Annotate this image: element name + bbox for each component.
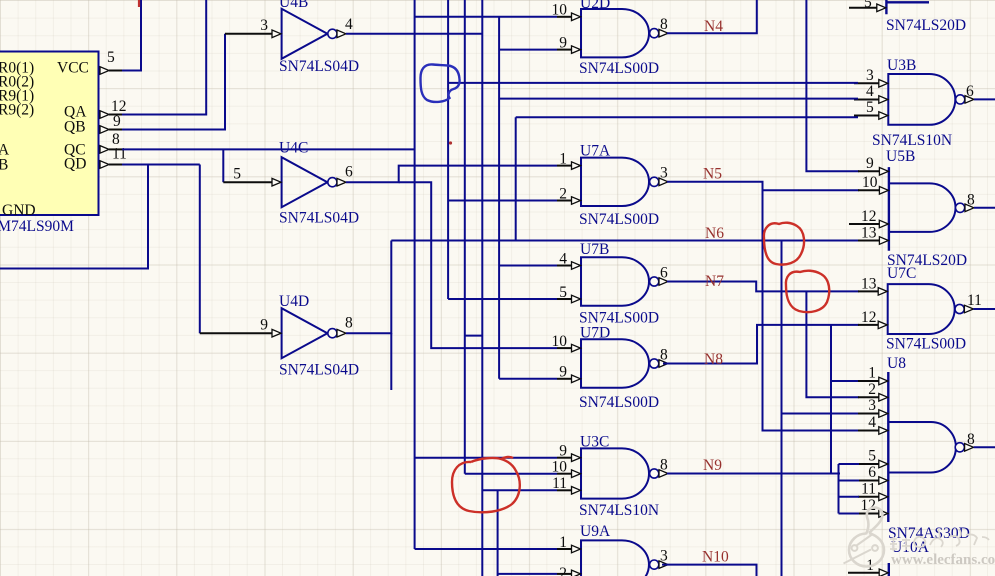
gate U8 input pin 11 [858,496,880,498]
svg-text:10: 10 [862,174,878,191]
gate U2D output bubble+pin 8 [650,29,659,38]
svg-text:U7D: U7D [580,325,610,342]
net N4 wire from U2D output up to top edge [667,0,757,33]
svg-text:9: 9 [260,317,268,334]
wire QD down to U4D input [199,165,201,334]
svg-text:U2D: U2D [580,0,610,12]
bus wire V5 x=499.1 [498,17,500,379]
gate U7A input pin 1 [557,165,573,167]
svg-text:13: 13 [861,225,877,242]
wire U3C pin9 feed from V1 [415,457,557,459]
svg-text:VCC: VCC [57,60,89,77]
svg-text:5: 5 [866,99,874,116]
svg-text:12: 12 [861,208,877,225]
gate U8 input pin 6 [858,480,880,482]
wire U3C pin11 feed from V4 [482,489,557,491]
svg-text:SN74LS04D: SN74LS04D [279,362,359,379]
svg-text:8: 8 [967,192,975,209]
wire QC branch down to U4C input [222,149,224,182]
net N5 wire U7A out to U5B pin10 with jog [667,182,859,191]
svg-text:3: 3 [660,165,668,182]
net N6 branch down x=781.5 to bottom, feeds U8 pin3 [781,241,783,576]
svg-text:5: 5 [868,448,876,465]
svg-text:SN74LS04D: SN74LS04D [279,58,359,75]
inverter U4D triangle [282,308,328,358]
svg-text:U3C: U3C [580,434,609,451]
wire U5B output to right edge [974,207,995,209]
wire U3C pin10 feed from V3 [465,473,557,475]
svg-text:1: 1 [559,150,567,167]
svg-text:U9A: U9A [580,523,611,540]
U1 pin 12 QA stub [100,111,109,119]
inverter U4D input pin arrow [272,329,281,337]
net N10 wire U9A out down to bottom edge [662,565,757,576]
inverter U4B output bubble and pin [328,29,337,38]
wire U3B pin4 feed from V5 [499,98,858,100]
svg-text:N6: N6 [705,225,724,242]
wire U8 output to right edge [974,446,995,448]
gate U8 input pin 2 [858,396,880,398]
inverter U4C input pin arrow [272,178,281,186]
svg-text:U5B: U5B [886,148,915,165]
svg-text:6: 6 [660,264,668,281]
svg-text:U7A: U7A [580,143,611,160]
gate U7D output bubble+pin 8 [650,359,659,368]
comb vertical feeding U8 pins 5 6 11 12 [838,464,840,514]
gate U10A partial body [888,563,890,576]
svg-text:QB: QB [64,119,86,136]
svg-text:U4B: U4B [279,0,308,11]
gate U3C input pin 10 [557,473,573,475]
gate U3B output pin 6 [956,95,965,104]
gate U8 input pin 5 [858,463,880,465]
wire QD right [122,164,200,166]
U4D pin 9 black stub [200,332,274,334]
wire U7B pin5 feed from V2 [448,298,557,300]
wire U7D pin9 feed from V5 [499,378,557,380]
gate U8 input pin 4 [858,430,880,432]
svg-text:SN74LS00D: SN74LS00D [579,60,659,77]
watermark elecfans logo circle [849,508,884,567]
bus wire V6 x=515.7 [515,117,517,240]
gate U5B pin 9 [858,170,880,172]
wire U3B pin5 feed from V6 [516,116,858,118]
net N6 wire U4D-inv out to U5B pin13 [391,240,859,242]
red annotation tick top-left [138,0,140,7]
gate U7B body [581,257,649,305]
svg-text:4: 4 [868,414,876,431]
svg-text:GND: GND [2,202,36,219]
wire U9A pin2 feed [498,573,557,575]
gate U2D input pin 10 [557,16,573,18]
net N8 branch down to U8 pin1 and N9 [830,325,832,474]
net N7 wire U7B out to U7C pin13 with jog [667,282,859,292]
bus wire V2 x=448.1 [447,0,449,299]
gate U3C input pin 11 [557,489,573,491]
gate U7D input pin 9 [557,378,573,380]
U1 pin 9 QB stub [100,126,109,134]
svg-text:www.elecfans.com: www.elecfans.com [891,552,995,568]
svg-text:SN74LS10N: SN74LS10N [872,132,952,149]
svg-text:R9(2): R9(2) [0,102,34,119]
svg-text:U7B: U7B [580,241,609,258]
gate U3C body [581,448,649,498]
watermark chinese script strokes [890,529,989,551]
net N8 wire U7D out up to U7C pin12 [663,325,859,364]
svg-text:DM74LS90M: DM74LS90M [0,218,74,235]
svg-text:8: 8 [660,456,668,473]
wire U2D pin10 feed from V1 [415,16,557,18]
gate U8 input pin 3 [858,413,880,415]
gate U7B output bubble+pin 6 [650,277,659,286]
svg-text:9: 9 [559,364,567,381]
svg-text:8: 8 [345,315,353,332]
svg-text:6: 6 [868,464,876,481]
gate U9A output bubble+pin 3 [650,560,659,569]
wire U2D pin9 feed from V5 [499,49,557,51]
svg-text:N7: N7 [705,273,724,290]
bus jog wire at y=335.6 [465,335,483,337]
wire N6 riser tail [390,333,392,390]
svg-text:4: 4 [866,83,874,100]
blue freehand scribble annotation [421,64,460,102]
svg-text:SN74LS00D: SN74LS00D [579,394,659,411]
gate U5B pin 12 stub [849,223,880,225]
gate U3B pin 5 [854,115,880,117]
net N9 wire U3C out to U8 comb [667,473,840,475]
wire U9A pin1 feed from V1 [415,548,557,550]
inverter U4C output bubble and pin [328,178,337,187]
gate U5B pin 13 [858,240,880,242]
gate U8 body (8-input 74AS30) [887,372,889,522]
gate U3B body (3-input) [888,74,955,125]
gate U8 output pin 8 [955,443,964,452]
gate U7A input pin 2 [557,200,573,202]
svg-text:5: 5 [559,284,567,301]
svg-text:U4C: U4C [279,140,308,157]
svg-text:3: 3 [866,67,874,84]
wire U4B output to bus V4 [346,33,482,35]
gate U7B input pin 4 [557,265,573,267]
wire top feed to U5B pin9 [806,0,859,171]
svg-text:6: 6 [966,83,974,100]
svg-text:12: 12 [861,309,877,326]
gate U7A output bubble+pin 3 [650,177,659,186]
svg-text:2: 2 [559,185,567,202]
gate U5B pin 10 [858,189,880,191]
gate U9A input pin 2 [557,573,573,575]
gate U3C input pin 9 [557,457,573,459]
inverter U4B triangle [282,9,328,59]
gate U9A body [581,540,649,576]
gate U5A pin 5 stub [849,7,878,9]
gate U10A pin 1 stub [848,572,880,574]
gate U7C pin 13 [858,290,879,292]
gate U8 input pin 12 [858,513,880,515]
wire U4C output net: right, up, to U7A pin1 [346,166,557,183]
U1 pin 8 QC stub [100,146,109,154]
wire U4C output branch to U7D pin10 riser [399,182,557,348]
svg-text:SN74LS00D: SN74LS00D [886,336,966,353]
gate U5B output pin 8 [956,203,965,212]
svg-text:5: 5 [107,49,115,66]
svg-text:U8: U8 [887,355,906,372]
gate U5B body (4-input 74LS20) [888,167,890,251]
svg-text:2: 2 [559,565,567,576]
svg-text:5: 5 [233,166,241,183]
svg-text:11: 11 [967,292,982,309]
svg-text:SN74LS00D: SN74LS00D [579,211,659,228]
svg-text:U3B: U3B [887,57,916,74]
red freehand scribble on N6 wire [764,223,804,265]
wire QC long horizontal to bus V1 [122,148,415,150]
svg-text:N9: N9 [703,457,722,474]
svg-text:11: 11 [112,146,127,163]
gate U7B input pin 5 [557,298,573,300]
gate U2D input pin 9 [557,49,573,51]
svg-text:4: 4 [345,16,353,33]
gate U7A body [581,158,649,206]
svg-text:B: B [0,157,8,174]
bus wire V4 x=482.3 [481,0,483,576]
svg-text:11: 11 [861,481,876,498]
red freehand scribble near U3C inputs [452,457,520,512]
red annotation dot [449,141,452,144]
inverter U4B input pin arrow [272,30,281,38]
bus wire V5b lower x=497.6 [497,490,499,576]
gate U2D body [581,9,649,57]
bus wire V3 x=464.8 [464,0,466,474]
red freehand scribble on N7 wire [786,271,829,312]
wire U7C output to right edge [973,308,995,310]
svg-text:9: 9 [559,34,567,51]
svg-text:QD: QD [64,156,86,173]
gate U8 comb branch pins 5 6 11 12 feeds [839,463,860,465]
wire U8 pin3 feed [782,413,860,415]
gate U8 input pin 1 [858,380,880,382]
net N5 branch down to U8 pin4 [763,190,860,430]
gate U7C body [888,284,955,334]
U1 pin 11 QD stub [100,161,109,169]
inverter U4C triangle [282,157,328,207]
svg-text:N10: N10 [702,549,729,566]
svg-text:8: 8 [967,431,975,448]
bus wire V1 x=414.6 [414,0,416,549]
wire QB right then up into U4B input [122,34,225,130]
wire QA right then up to top edge [122,0,206,115]
svg-text:8: 8 [660,16,668,33]
wire U4D output to N6 riser [346,241,391,334]
IC U1 SN74LS90M body [0,52,99,216]
inverter U4D output bubble and pin [328,329,337,338]
svg-text:SN74LS10N: SN74LS10N [579,502,659,519]
svg-text:5: 5 [864,0,872,11]
gate U3B pin 4 [854,99,880,101]
gate U7C output pin 11 [955,304,964,313]
svg-text:N4: N4 [704,18,723,35]
svg-text:4: 4 [559,250,567,267]
svg-text:SN74LS04D: SN74LS04D [279,210,359,227]
svg-text:1: 1 [868,365,876,382]
svg-text:6: 6 [345,164,353,181]
gate U7D input pin 10 [557,347,573,349]
gate U9A input pin 1 [557,548,573,550]
net N7 branch down to U8 pin2 [806,291,859,397]
svg-text:N8: N8 [704,351,723,368]
svg-text:9: 9 [113,113,121,130]
svg-text:2: 2 [868,381,876,398]
svg-text:9: 9 [866,155,874,172]
wire U7B pin4 feed from V5 [499,265,557,267]
U4C pin 5 black stub [223,181,273,183]
gate U7C pin 12 [858,324,879,326]
svg-text:3: 3 [660,547,668,564]
svg-text:9: 9 [559,443,567,460]
svg-text:13: 13 [861,276,877,293]
gate U3B pin 3 [854,82,880,84]
watermark logo screw dots and slots [844,535,878,564]
wire QD branch down-left exit [0,165,148,269]
gate U5A top SN74LS20D partial body [886,0,929,14]
U4B pin 3 black stub [225,33,274,35]
svg-text:U7C: U7C [887,265,916,282]
svg-text:3: 3 [260,17,268,34]
svg-text:10: 10 [552,333,568,350]
svg-text:8: 8 [660,346,668,363]
svg-text:3: 3 [868,397,876,414]
gate U3C output bubble+pin 8 [650,469,659,478]
wire VCC net up [122,0,141,71]
wire U7A pin2 feed from V2 [448,200,557,202]
gate U7D body [581,339,649,387]
wire U3B pin3 feed from V2 [448,82,858,84]
svg-text:1: 1 [559,534,567,551]
svg-text:SN74LS20D: SN74LS20D [886,17,966,34]
wire U3B output to right edge [974,98,995,100]
U1 pin 5 VCC stub [100,67,109,75]
wire U8 pin1 feed [831,380,859,382]
svg-text:N5: N5 [703,166,722,183]
svg-text:U4D: U4D [279,293,309,310]
